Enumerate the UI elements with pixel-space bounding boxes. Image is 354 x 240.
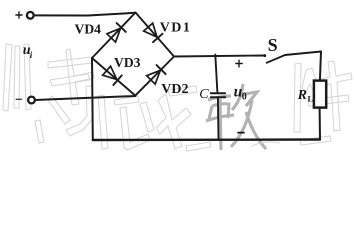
svg-text:0: 0: [242, 92, 247, 103]
svg-text:L: L: [308, 94, 314, 104]
bridge side T-R: [136, 13, 175, 57]
watermark char 5: [294, 63, 301, 132]
plus sign ui: [16, 12, 22, 18]
watermark: [3, 44, 352, 151]
watermark char 4: [206, 84, 266, 150]
wire right rail upper: [320, 52, 321, 81]
diode VD2: [146, 65, 165, 84]
bridge side L-B: [92, 58, 135, 96]
minus sign uo: [238, 132, 244, 134]
watermark char 1 strokes: [3, 44, 12, 111]
wire right rail lower: [319, 108, 321, 140]
svg-text:R: R: [297, 88, 307, 103]
bridge side B-R: [135, 57, 174, 96]
wire top input: [34, 13, 136, 16]
bridge side T-L: [92, 13, 136, 59]
watermark char 3: [98, 95, 108, 149]
svg-text:VD4: VD4: [75, 22, 102, 37]
plus sign uo: [236, 60, 242, 67]
capacitor branch upper wire: [215, 55, 217, 93]
terminal bottom: [28, 97, 35, 104]
diode VD4: [107, 23, 126, 42]
wire bottom rail: [93, 138, 320, 141]
svg-text:VD2: VD2: [161, 82, 188, 97]
svg-text:i: i: [30, 50, 33, 60]
svg-text:C: C: [199, 87, 209, 102]
capacitor C bottom plate: [211, 96, 226, 98]
svg-text:VD1: VD1: [160, 20, 191, 35]
diode VD1: [143, 23, 162, 42]
wire top rail to switch: [174, 56, 265, 57]
diode VD3: [102, 66, 121, 85]
svg-text:S: S: [268, 35, 278, 55]
switch S lever: [267, 55, 285, 63]
watermark stray marks below rail: [186, 142, 211, 151]
svg-text:VD3: VD3: [114, 55, 141, 70]
switch S contact dot: [263, 54, 266, 57]
wire bottom input: [35, 96, 135, 100]
capacitor branch lower wire: [217, 98, 220, 139]
watermark char 2: [48, 57, 92, 68]
wire switch to corner: [285, 52, 321, 56]
minus sign ui: [16, 98, 21, 100]
resistor RL box: [314, 81, 326, 108]
capacitor C top plate: [211, 92, 225, 94]
terminal top: [27, 12, 34, 19]
wire left vertical (L to bottom rail): [91, 58, 94, 140]
